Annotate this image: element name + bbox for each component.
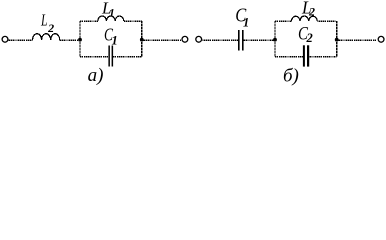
svg-text:1: 1 [243, 15, 249, 29]
svg-text:а): а) [88, 65, 104, 86]
svg-text:2: 2 [306, 31, 313, 45]
svg-text:2: 2 [47, 21, 54, 35]
svg-text:1: 1 [112, 33, 118, 47]
svg-text:1: 1 [109, 8, 115, 20]
svg-text:2: 2 [308, 5, 315, 19]
svg-text:L: L [40, 11, 47, 30]
svg-text:б): б) [283, 66, 299, 87]
